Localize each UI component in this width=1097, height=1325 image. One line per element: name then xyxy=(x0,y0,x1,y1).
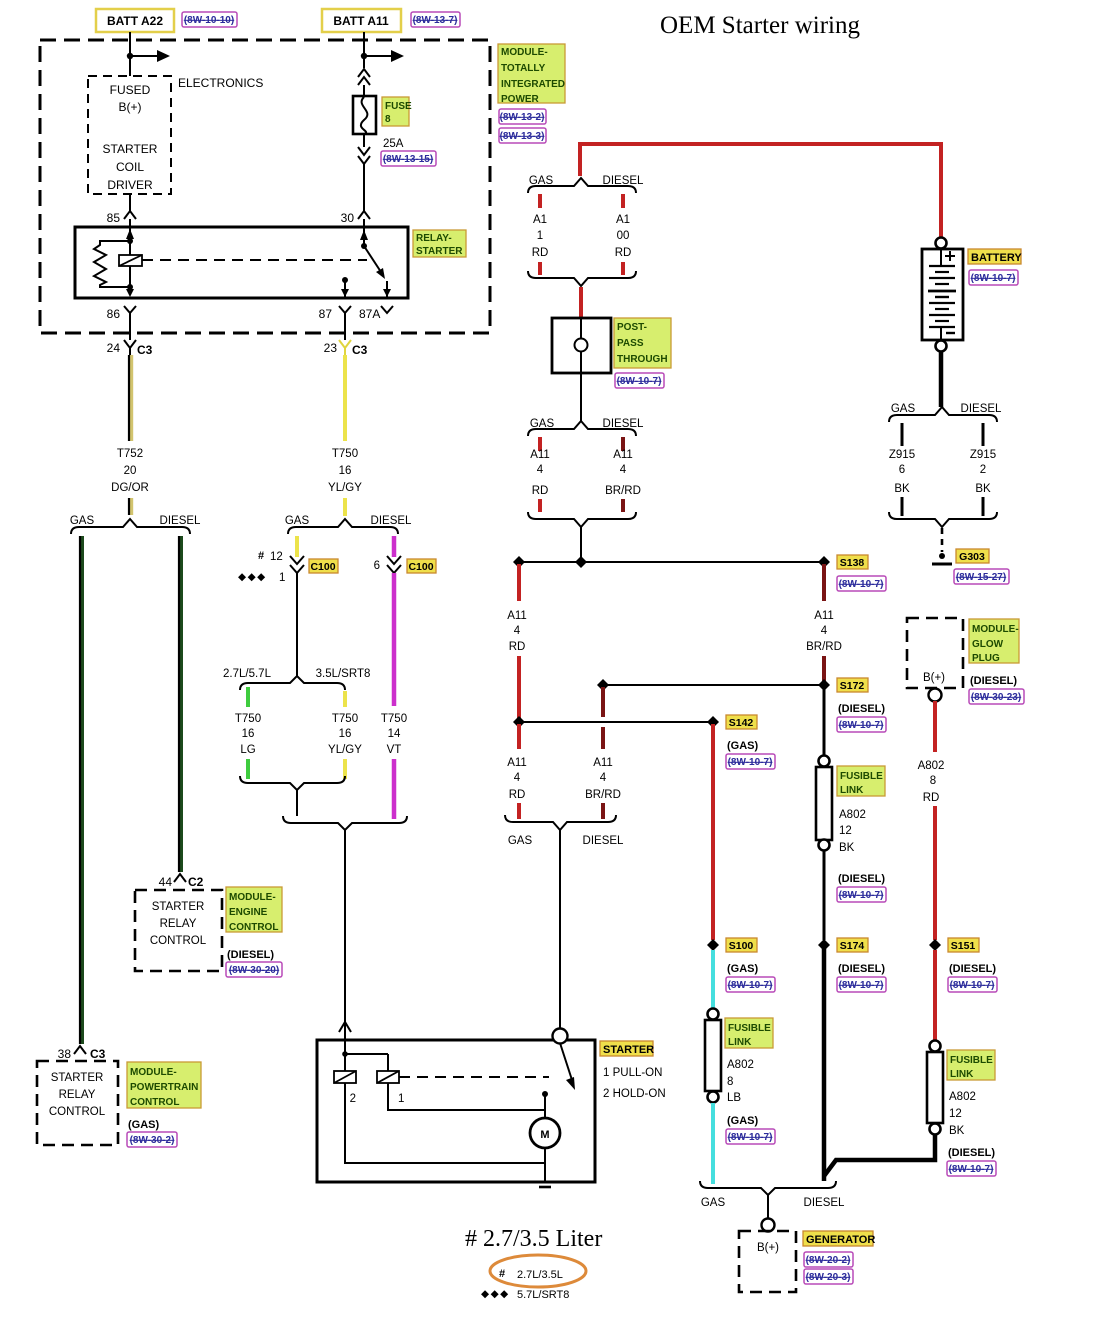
svg-text:STARTER: STARTER xyxy=(51,1072,104,1084)
svg-text:(GAS): (GAS) xyxy=(727,740,759,752)
svg-text:RD: RD xyxy=(509,789,526,801)
svg-text:C3: C3 xyxy=(137,343,153,357)
generator dashed box xyxy=(739,1231,796,1292)
svg-text:OEM Starter wiring: OEM Starter wiring xyxy=(660,12,860,39)
relay coil K1 xyxy=(119,255,142,266)
svg-text:GAS: GAS xyxy=(529,175,554,187)
svg-text:# 2.7/3.5 Liter: # 2.7/3.5 Liter xyxy=(465,1226,602,1252)
link (8W-10-7) s151 xyxy=(948,977,997,992)
svg-text:YL/GY: YL/GY xyxy=(328,744,362,756)
merge bracket LG + YL/GY xyxy=(240,776,345,790)
splice bracket GAS/DIESEL (A11) xyxy=(528,421,636,436)
svg-text:DIESEL: DIESEL xyxy=(160,515,202,527)
node S142 left xyxy=(513,716,525,728)
label STARTER xyxy=(600,1041,653,1056)
node S151 xyxy=(929,939,941,951)
resistor (relay internal) xyxy=(94,241,130,287)
svg-text:2.7L/3.5L: 2.7L/3.5L xyxy=(517,1269,563,1281)
svg-text:(8W-10-7): (8W-10-7) xyxy=(971,273,1016,284)
wire T752 20 DG/OR (black/tan pair) xyxy=(130,355,133,441)
wire coil1 to motor contact xyxy=(388,1083,545,1110)
module TIPM dashed boundary xyxy=(40,40,490,333)
svg-text:(8W-30-2): (8W-30-2) xyxy=(130,1135,175,1146)
wire A11 RD to gas merge xyxy=(517,724,521,749)
svg-text:YL/GY: YL/GY xyxy=(328,482,362,494)
svg-text:4: 4 xyxy=(514,772,521,784)
svg-text:A1: A1 xyxy=(533,214,547,226)
link (8W-10-7) s100 xyxy=(726,977,775,992)
svg-text:(8W-10-7): (8W-10-7) xyxy=(949,1164,994,1175)
svg-text:8: 8 xyxy=(385,114,391,125)
merge bracket to starter xyxy=(283,816,407,830)
wire to S138 xyxy=(580,527,582,562)
wire pin30 into relay xyxy=(363,219,365,246)
svg-text:POST-: POST- xyxy=(617,322,647,333)
node S100 xyxy=(707,939,719,951)
node switch pivot xyxy=(361,243,367,249)
svg-text:(8W-10-7): (8W-10-7) xyxy=(839,890,884,901)
wire contact 87 down xyxy=(344,280,346,297)
svg-text:S138: S138 xyxy=(840,557,865,569)
post pass through box xyxy=(552,318,611,373)
svg-text:C100: C100 xyxy=(310,561,335,573)
wire A802 8 RD glow plug down xyxy=(933,701,937,752)
svg-text:(8W-20-3): (8W-20-3) xyxy=(806,1272,851,1283)
ground G303 xyxy=(939,553,945,559)
label S151 xyxy=(948,938,979,952)
svg-text:14: 14 xyxy=(388,728,401,740)
node S138 left xyxy=(513,556,525,568)
svg-text:MODULE-: MODULE- xyxy=(229,892,276,903)
wire splice S172 bus xyxy=(603,684,824,686)
svg-text:1 PULL-ON: 1 PULL-ON xyxy=(603,1067,662,1079)
svg-text:VT: VT xyxy=(387,744,402,756)
svg-text:FUSIBLE: FUSIBLE xyxy=(840,771,883,782)
connector label BATT A22 xyxy=(96,9,174,32)
wire BK to S174 xyxy=(823,851,826,940)
solenoid switch blade xyxy=(560,1043,572,1080)
svg-text:DIESEL: DIESEL xyxy=(603,418,645,430)
svg-text:(GAS): (GAS) xyxy=(727,1115,759,1127)
svg-text:PASS: PASS xyxy=(617,338,644,349)
wire LB below S100 (cyan) xyxy=(711,950,715,1008)
wire driver to pin 85 xyxy=(129,194,131,211)
link (8W-13-2) xyxy=(499,109,546,124)
svg-text:DIESEL: DIESEL xyxy=(603,175,645,187)
svg-text:T752: T752 xyxy=(117,448,143,460)
splice bracket GAS/DIESEL (Z915) xyxy=(889,407,997,422)
svg-text:Z915: Z915 xyxy=(970,449,996,461)
svg-text:Z915: Z915 xyxy=(889,449,915,461)
svg-text:44: 44 xyxy=(159,875,173,889)
svg-text:DG/OR: DG/OR xyxy=(111,482,149,494)
node contact 87 xyxy=(342,277,348,283)
label C100 (gas) xyxy=(309,559,338,573)
svg-text:THROUGH: THROUGH xyxy=(617,354,668,365)
wire T750 16 YL/GY (yellow) xyxy=(343,355,347,441)
label GENERATOR xyxy=(803,1231,873,1246)
wire A1 00 RD (diesel) xyxy=(621,194,625,208)
merge bracket GAS/DIESEL to solenoid xyxy=(505,815,616,830)
svg-text:2 HOLD-ON: 2 HOLD-ON xyxy=(603,1088,666,1100)
svg-text:4: 4 xyxy=(620,464,627,476)
link (8W-10-7) battery xyxy=(969,270,1018,285)
svg-text:(GAS): (GAS) xyxy=(128,1119,160,1131)
wire motor to ground xyxy=(544,1148,546,1182)
link (8W-10-7) fl xyxy=(837,887,886,902)
svg-text:C3: C3 xyxy=(352,343,368,357)
fusible link diesel (lower) xyxy=(930,1041,941,1052)
wire coil2 to motor bottom xyxy=(345,1083,545,1163)
svg-text:A802: A802 xyxy=(918,760,945,772)
module glow plug dashed box xyxy=(907,618,963,688)
svg-text:A11: A11 xyxy=(814,610,834,622)
svg-text:6: 6 xyxy=(899,464,905,476)
svg-text:(8W-10-7): (8W-10-7) xyxy=(728,1132,773,1143)
svg-text:20: 20 xyxy=(124,465,137,477)
svg-text:S151: S151 xyxy=(951,940,976,952)
fusible link diesel (upper) xyxy=(819,756,830,767)
svg-text:(8W-10-7): (8W-10-7) xyxy=(728,980,773,991)
svg-text:(8W-13-2): (8W-13-2) xyxy=(500,112,545,123)
splice bracket GAS/DIESEL (left) xyxy=(71,519,190,534)
wire GAS yellow stub xyxy=(295,536,299,557)
svg-text:12: 12 xyxy=(949,1108,962,1120)
connector chevron at starter xyxy=(339,1022,351,1032)
ground (starter) xyxy=(533,1181,557,1184)
svg-text:S142: S142 xyxy=(729,717,754,729)
wire DIESEL DG (to ECM) xyxy=(179,536,183,872)
svg-text:(DIESEL): (DIESEL) xyxy=(227,949,274,961)
svg-text:16: 16 xyxy=(339,465,352,477)
svg-text:4: 4 xyxy=(821,625,828,637)
svg-text:T750: T750 xyxy=(235,713,261,725)
link (8W-10-7) s174 xyxy=(837,977,886,992)
svg-text:MODULE-: MODULE- xyxy=(130,1067,177,1078)
svg-text:T750: T750 xyxy=(381,713,407,725)
wire DIESEL magenta stub xyxy=(392,536,397,557)
wire red to post pass through xyxy=(579,287,583,318)
svg-text:(8W-10-7): (8W-10-7) xyxy=(839,980,884,991)
svg-text:◆◆◆: ◆◆◆ xyxy=(238,571,267,583)
label MODULE-GLOW PLUG xyxy=(969,619,1019,663)
node coil top junction xyxy=(127,238,133,244)
module PCM dashed box xyxy=(37,1061,118,1145)
node S174 xyxy=(818,939,830,951)
wire T750 14 VT (magenta) xyxy=(392,573,397,706)
svg-text:GAS: GAS xyxy=(530,418,555,430)
wire A11 BR/RD to diesel merge xyxy=(601,727,605,749)
svg-text:1: 1 xyxy=(279,572,285,584)
svg-text:(8W-10-7): (8W-10-7) xyxy=(728,757,773,768)
dashed solenoid actuation line xyxy=(399,1076,549,1078)
svg-text:S172: S172 xyxy=(840,680,865,692)
svg-text:C100: C100 xyxy=(408,561,433,573)
glow plug terminal xyxy=(929,689,942,702)
wire RD below S151 xyxy=(933,950,937,1040)
svg-text:12: 12 xyxy=(270,551,283,563)
wire A11 RD below S138 (gas) xyxy=(517,564,521,601)
link (8W-13-3) xyxy=(499,128,546,143)
svg-text:A802: A802 xyxy=(839,809,866,821)
svg-text:#: # xyxy=(258,550,264,562)
svg-text:LG: LG xyxy=(240,744,255,756)
svg-text:B(+): B(+) xyxy=(757,1242,779,1254)
splice bracket GAS/DIESEL (A1) xyxy=(528,178,636,193)
label MODULE-ENGINE CONTROL xyxy=(226,887,282,932)
link (8W-30-2) xyxy=(127,1132,177,1147)
label S142 xyxy=(726,715,757,729)
svg-text:(DIESEL): (DIESEL) xyxy=(838,963,885,975)
svg-text:T750: T750 xyxy=(332,448,358,460)
wire Z915 2 BK xyxy=(982,423,985,446)
svg-text:GENERATOR: GENERATOR xyxy=(806,1234,875,1246)
label MODULE-POWERTRAIN CONTROL xyxy=(127,1062,201,1108)
svg-text:DIESEL: DIESEL xyxy=(371,515,413,527)
coil 1 (pull) xyxy=(377,1071,399,1083)
svg-text:G303: G303 xyxy=(959,551,985,563)
fused B(+) starter coil driver dashed box xyxy=(88,76,171,194)
svg-text:1: 1 xyxy=(537,230,543,242)
wire BK thick S174 down xyxy=(822,948,827,1181)
svg-text:#: # xyxy=(499,1268,505,1280)
motor M xyxy=(530,1118,560,1148)
svg-text:(8W-10-7): (8W-10-7) xyxy=(950,980,995,991)
svg-text:(GAS): (GAS) xyxy=(727,963,759,975)
wire contact 87A stub xyxy=(386,281,388,297)
svg-text:(DIESEL): (DIESEL) xyxy=(948,1147,995,1159)
label BATTERY xyxy=(968,249,1021,264)
wire merged to solenoid switch xyxy=(559,830,561,1028)
svg-text:DRIVER: DRIVER xyxy=(107,178,153,192)
svg-text:(DIESEL): (DIESEL) xyxy=(949,963,996,975)
wire BATT A22 down xyxy=(129,32,131,76)
svg-text:00: 00 xyxy=(617,230,630,242)
svg-text:87A: 87A xyxy=(359,307,380,321)
link (8W-30-20) xyxy=(226,962,282,977)
svg-text:BR/RD: BR/RD xyxy=(605,485,641,497)
svg-text:STARTER: STARTER xyxy=(603,1044,654,1056)
svg-text:4: 4 xyxy=(537,464,544,476)
link (8W-10-7) s142 xyxy=(726,754,775,769)
svg-text:BATTERY: BATTERY xyxy=(971,252,1022,264)
link (8W-10-7) fll xyxy=(947,1161,996,1176)
highlight ellipse xyxy=(490,1255,586,1287)
link (8W-10-7) s172 xyxy=(837,717,886,732)
node branch to coil 1 xyxy=(342,1051,348,1057)
svg-text:BR/RD: BR/RD xyxy=(585,789,621,801)
wire C100 down (thin) xyxy=(296,573,298,676)
svg-text:8: 8 xyxy=(930,775,936,787)
svg-text:B(+): B(+) xyxy=(923,672,945,684)
svg-text:(8W-30-20): (8W-30-20) xyxy=(229,965,279,976)
node S172 left xyxy=(597,679,609,691)
battery B1 xyxy=(922,249,963,340)
svg-text:POWERTRAIN: POWERTRAIN xyxy=(130,1082,198,1093)
svg-text:(8W-30-23): (8W-30-23) xyxy=(971,692,1021,703)
wire to generator xyxy=(767,1195,769,1219)
label FUSIBLE LINK (diesel lower) xyxy=(947,1050,995,1080)
svg-text:BK: BK xyxy=(975,483,991,495)
svg-text:FUSIBLE: FUSIBLE xyxy=(950,1055,993,1066)
svg-text:DIESEL: DIESEL xyxy=(961,403,1003,415)
pin 30 connector chevron xyxy=(358,211,370,219)
svg-text:RD: RD xyxy=(532,485,549,497)
node junction + branch arrow right (A11) xyxy=(361,53,367,59)
connector label BATT A11 xyxy=(322,9,401,32)
svg-text:GAS: GAS xyxy=(508,835,533,847)
svg-text:2.7L/5.7L: 2.7L/5.7L xyxy=(223,668,272,680)
connector double chevron above fuse xyxy=(358,69,370,85)
wire T750 16 YL/GY (yellow lower) xyxy=(343,691,347,707)
svg-text:BATT A22: BATT A22 xyxy=(107,14,163,28)
link (8W-13-15) xyxy=(381,151,436,166)
merge bracket GAS/DIESEL generator xyxy=(700,1181,836,1195)
wire merged stub xyxy=(296,790,298,816)
link (8W-30-23) xyxy=(969,689,1024,704)
wire fuse to pin 30 xyxy=(363,163,365,211)
pin 85 connector chevron xyxy=(124,211,136,219)
wire BR/RD S172 down (diesel branch) xyxy=(601,687,605,717)
svg-text:BK: BK xyxy=(839,842,855,854)
svg-text:◆◆◆: ◆◆◆ xyxy=(481,1288,510,1300)
link (8W-20-3) xyxy=(804,1269,853,1284)
svg-text:A802: A802 xyxy=(949,1091,976,1103)
label FUSIBLE LINK (diesel upper) xyxy=(837,766,885,796)
svg-text:RD: RD xyxy=(509,641,526,653)
wire battery negative down xyxy=(939,352,944,407)
svg-text:GAS: GAS xyxy=(891,403,916,415)
label G303 xyxy=(956,549,989,563)
wire post pass down xyxy=(580,352,582,421)
battery negative terminal xyxy=(936,341,947,352)
link (8W-10-7) s138 xyxy=(837,576,886,591)
module ECM dashed box xyxy=(135,890,222,971)
svg-text:LINK: LINK xyxy=(840,785,864,796)
svg-text:12: 12 xyxy=(839,825,852,837)
svg-text:A11: A11 xyxy=(507,610,527,622)
label POST-PASS THROUGH xyxy=(614,318,671,368)
wire splice S138 bus xyxy=(519,561,824,563)
merge bracket A1 xyxy=(528,271,636,286)
svg-text:ELECTRONICS: ELECTRONICS xyxy=(178,76,263,90)
link (8W-10-7) flg xyxy=(726,1129,775,1144)
node coil bottom junction xyxy=(127,284,133,290)
label FUSE 8 xyxy=(382,97,409,126)
wire 86 to module edge xyxy=(129,320,131,340)
wire GAS DG (to PCM) xyxy=(80,536,84,1044)
svg-text:(8W-15-27): (8W-15-27) xyxy=(956,572,1006,583)
connector C100 diesel double chevron xyxy=(387,556,401,573)
wire coil to relay bottom xyxy=(126,289,134,297)
svg-text:CONTROL: CONTROL xyxy=(130,1097,179,1108)
svg-text:85: 85 xyxy=(107,211,121,225)
wire to starter solenoid xyxy=(344,830,346,1040)
svg-text:16: 16 xyxy=(242,728,255,740)
link (8W-20-2) xyxy=(804,1252,853,1267)
wire dashed to ground xyxy=(941,528,944,552)
splice bracket GAS/DIESEL (middle) xyxy=(288,519,398,534)
svg-text:A11: A11 xyxy=(593,757,613,769)
svg-text:16: 16 xyxy=(339,728,352,740)
svg-text:BR/RD: BR/RD xyxy=(806,641,842,653)
svg-text:LB: LB xyxy=(727,1092,741,1104)
label S174 xyxy=(837,938,868,952)
svg-text:GLOW: GLOW xyxy=(972,639,1004,650)
svg-text:2: 2 xyxy=(980,464,986,476)
fuse F8 symbol xyxy=(353,96,376,134)
svg-text:(8W-10-10): (8W-10-10) xyxy=(184,15,234,26)
svg-text:INTEGRATED: INTEGRATED xyxy=(501,79,565,90)
svg-text:MODULE-: MODULE- xyxy=(972,624,1019,635)
svg-text:T750: T750 xyxy=(332,713,358,725)
svg-text:5.7L/SRT8: 5.7L/SRT8 xyxy=(517,1289,569,1301)
svg-text:CONTROL: CONTROL xyxy=(229,922,278,933)
svg-text:DIESEL: DIESEL xyxy=(583,835,625,847)
wire A11 BR/RD below S138 (diesel) xyxy=(822,564,826,601)
svg-text:4: 4 xyxy=(600,772,607,784)
relay switch blade xyxy=(364,246,381,272)
svg-text:CONTROL: CONTROL xyxy=(49,1106,106,1118)
svg-text:FUSE: FUSE xyxy=(385,101,412,112)
wire contact to motor xyxy=(544,1094,546,1118)
link (8W-10-7) post xyxy=(615,373,664,388)
connector C100 gas double chevron xyxy=(290,556,304,573)
svg-text:RD: RD xyxy=(923,792,940,804)
svg-text:GAS: GAS xyxy=(70,515,95,527)
svg-text:GAS: GAS xyxy=(701,1197,726,1209)
merge bracket Z915 xyxy=(889,512,997,527)
wire BATT A11 down xyxy=(363,32,365,68)
generator terminal xyxy=(762,1219,775,1232)
svg-text:POWER: POWER xyxy=(501,94,540,105)
svg-text:S174: S174 xyxy=(840,940,865,952)
svg-text:FUSIBLE: FUSIBLE xyxy=(728,1023,771,1034)
svg-text:GAS: GAS xyxy=(285,515,310,527)
wire splice S142 bus xyxy=(519,721,713,723)
svg-text:LINK: LINK xyxy=(728,1037,752,1048)
label FUSIBLE LINK (gas) xyxy=(725,1018,773,1048)
svg-text:38: 38 xyxy=(58,1047,72,1061)
svg-text:(DIESEL): (DIESEL) xyxy=(838,703,885,715)
svg-text:87: 87 xyxy=(319,307,333,321)
svg-text:(8W-13-3): (8W-13-3) xyxy=(500,131,545,142)
wire RD S142 to S100 xyxy=(711,724,715,940)
svg-text:A11: A11 xyxy=(530,449,550,461)
connector double chevron below fuse xyxy=(358,147,370,164)
svg-text:C3: C3 xyxy=(90,1047,106,1061)
wire Z915 6 BK xyxy=(901,423,904,446)
svg-text:RELAY: RELAY xyxy=(160,918,197,930)
wire solenoid entry xyxy=(344,1040,346,1071)
svg-text:RELAY: RELAY xyxy=(59,1089,96,1101)
svg-text:RD: RD xyxy=(615,247,632,259)
svg-text:4: 4 xyxy=(514,625,521,637)
svg-text:CONTROL: CONTROL xyxy=(150,935,207,947)
svg-text:A11: A11 xyxy=(507,757,527,769)
svg-text:PLUG: PLUG xyxy=(972,653,1000,664)
svg-text:(DIESEL): (DIESEL) xyxy=(970,675,1017,687)
svg-text:STARTER: STARTER xyxy=(103,142,158,156)
svg-text:STARTER: STARTER xyxy=(152,901,205,913)
svg-text:TOTALLY: TOTALLY xyxy=(501,63,546,74)
svg-text:BK: BK xyxy=(949,1125,965,1137)
svg-text:2: 2 xyxy=(350,1093,356,1105)
svg-text:FUSED: FUSED xyxy=(110,83,151,97)
wire pin85 into relay xyxy=(129,219,131,287)
wire battery feed bus (red) xyxy=(580,144,941,238)
wire LB to generator bracket (cyan) xyxy=(711,1103,715,1184)
